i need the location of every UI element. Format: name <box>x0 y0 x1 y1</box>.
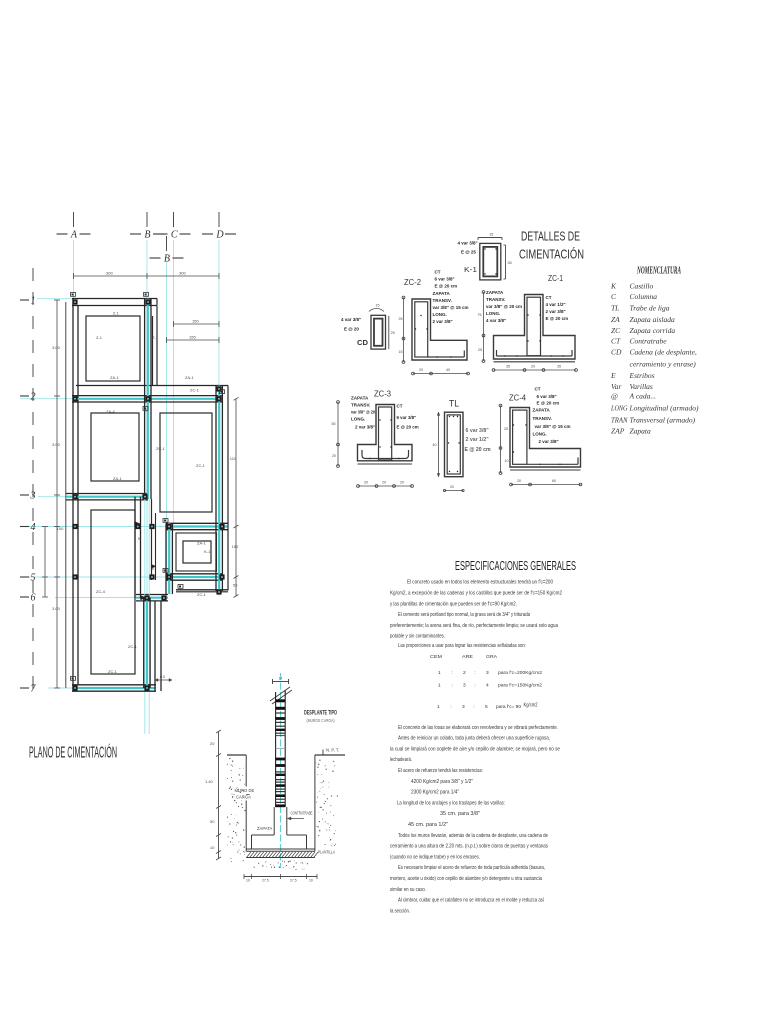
svg-text:Castillo: Castillo <box>630 282 654 291</box>
svg-text:B: B <box>144 229 150 240</box>
svg-text:10: 10 <box>505 459 509 463</box>
svg-text:20: 20 <box>210 741 215 746</box>
svg-text:var 3/8" @ 15 cm: var 3/8" @ 15 cm <box>535 424 571 429</box>
svg-text:2300 Kg/cm2 para 1/4": 2300 Kg/cm2 para 1/4" <box>411 790 459 796</box>
svg-text:1: 1 <box>437 704 440 710</box>
svg-text:Longitudinal (armado): Longitudinal (armado) <box>629 404 699 413</box>
svg-text:CT: CT <box>546 295 552 300</box>
svg-text:3.00: 3.00 <box>52 606 61 611</box>
svg-text::: : <box>450 705 451 710</box>
svg-text:Las proporciones a usar para l: Las proporciones a usar para lograr las … <box>398 643 526 649</box>
svg-text:La longitud de los anclajes y: La longitud de los anclajes y los trasla… <box>397 800 505 806</box>
svg-text:LONG.: LONG. <box>433 312 447 317</box>
svg-text:55: 55 <box>233 583 238 588</box>
svg-text:N. P. T.: N. P. T. <box>326 748 339 753</box>
svg-text:Zapata aislada: Zapata aislada <box>630 315 675 324</box>
svg-text:4: 4 <box>31 522 36 533</box>
svg-text:6 var 3/8": 6 var 3/8" <box>435 277 455 282</box>
svg-text:55: 55 <box>332 422 336 426</box>
svg-text:K: K <box>152 566 155 571</box>
svg-text:30: 30 <box>508 261 512 265</box>
svg-text:Todos los muros llevarán, adem: Todos los muros llevarán, además de la c… <box>398 833 548 839</box>
svg-text:20: 20 <box>364 481 368 485</box>
svg-text:El cemento será portland tipo: El cemento será portland tipo normal, la… <box>398 612 530 618</box>
svg-text:3: 3 <box>463 683 466 689</box>
svg-text:ZA: ZA <box>611 315 620 324</box>
svg-text:LONG.: LONG. <box>533 432 547 437</box>
svg-text::: : <box>474 671 475 676</box>
svg-text:E @ 25: E @ 25 <box>461 250 476 255</box>
svg-text:potable y sin contaminantes.: potable y sin contaminantes. <box>390 634 445 640</box>
svg-text:35: 35 <box>557 365 561 369</box>
svg-text:5: 5 <box>31 572 36 583</box>
svg-text:Es necesario limpiar el acero: Es necesario limpiar el acero de refuerz… <box>398 865 545 871</box>
svg-text:4 var 1/2": 4 var 1/2" <box>546 302 566 307</box>
svg-text:14: 14 <box>279 677 283 681</box>
svg-text:300: 300 <box>106 271 113 276</box>
svg-text:K: K <box>144 408 147 413</box>
svg-text:2 var 3/8": 2 var 3/8" <box>546 309 566 314</box>
svg-text:var 3/8" @ 20: var 3/8" @ 20 <box>351 410 375 415</box>
svg-text:10: 10 <box>309 879 313 883</box>
svg-text:3: 3 <box>30 490 36 501</box>
svg-text:ZAP: ZAP <box>611 427 625 436</box>
svg-text:ZAPATA: ZAPATA <box>351 396 369 401</box>
svg-text:CT: CT <box>435 270 441 275</box>
svg-text:Z-1: Z-1 <box>152 335 159 340</box>
svg-text:ZC-1: ZC-1 <box>108 669 118 674</box>
svg-text:2: 2 <box>463 670 466 676</box>
svg-text:E @ 20: E @ 20 <box>344 327 359 332</box>
svg-text:PLANTILLA: PLANTILLA <box>318 850 335 855</box>
svg-text::: : <box>474 684 475 689</box>
svg-text:45 cm. para 1/2": 45 cm. para 1/2" <box>408 822 448 828</box>
svg-text:CEM: CEM <box>430 654 442 660</box>
svg-text:25: 25 <box>504 427 508 431</box>
svg-text:ZA-1: ZA-1 <box>185 375 194 380</box>
svg-text:ZC-4: ZC-4 <box>96 589 106 594</box>
svg-text:100: 100 <box>57 526 64 531</box>
svg-text:preferentemente; la arena será: preferentemente; la arena será fina, de … <box>390 623 558 629</box>
svg-text:LONG.: LONG. <box>486 311 500 316</box>
svg-text:4 var 3/8": 4 var 3/8" <box>486 318 506 323</box>
svg-text:300: 300 <box>179 271 186 276</box>
svg-text:75: 75 <box>478 313 482 317</box>
svg-text:DESPLANTE TIPO: DESPLANTE TIPO <box>304 710 337 717</box>
svg-text::: : <box>452 684 453 689</box>
svg-text:E @ 20 cm: E @ 20 cm <box>397 425 419 430</box>
svg-text:20: 20 <box>517 479 521 483</box>
svg-text:var 3/8" @ 15 cm: var 3/8" @ 15 cm <box>433 305 469 310</box>
svg-text:PLANO DE CIMENTACIÓN: PLANO DE CIMENTACIÓN <box>29 745 117 762</box>
svg-text:40: 40 <box>433 443 437 447</box>
svg-text:MURO DE: MURO DE <box>235 788 255 793</box>
svg-text:El concreto de las losas se el: El concreto de las losas se elaborará co… <box>398 725 558 731</box>
svg-text:TL: TL <box>611 304 619 313</box>
svg-text:var 3/8" @ 20 cm: var 3/8" @ 20 cm <box>486 304 522 309</box>
svg-text:ZA-1: ZA-1 <box>113 476 122 481</box>
svg-text:K: K <box>610 282 617 291</box>
svg-text:10: 10 <box>246 879 250 883</box>
svg-text:la cual se limpiará con soplet: la cual se limpiará con soplete de aire … <box>390 746 560 752</box>
svg-text:4 var 3/8": 4 var 3/8" <box>458 241 478 246</box>
svg-text:Kg/cm2, a excepción de las cad: Kg/cm2, a excepción de las cadenas y los… <box>390 591 562 597</box>
svg-text:Estribos: Estribos <box>629 371 655 380</box>
svg-text:(MUROS CARGA): (MUROS CARGA) <box>307 718 335 723</box>
svg-text:4 var 3/8": 4 var 3/8" <box>341 317 361 322</box>
svg-text:lechadeará.: lechadeará. <box>390 757 412 763</box>
svg-text:LONG.: LONG. <box>351 417 365 422</box>
svg-text:ZC-2: ZC-2 <box>404 277 421 287</box>
svg-text:TRANSV.: TRANSV. <box>533 416 552 421</box>
svg-text:20: 20 <box>450 485 454 489</box>
svg-text:CT: CT <box>535 387 541 392</box>
svg-text:ZA-1: ZA-1 <box>197 541 206 546</box>
svg-text:E @ 20 cm: E @ 20 cm <box>537 400 560 405</box>
svg-text:El concreto usado en todos los: El concreto usado en todos los elemento … <box>407 580 553 586</box>
svg-text:20: 20 <box>419 368 423 372</box>
svg-text:E @ 20 cm: E @ 20 cm <box>435 284 458 289</box>
svg-text:25: 25 <box>399 317 403 321</box>
svg-text:ZC-1: ZC-1 <box>197 592 207 597</box>
svg-text:A: A <box>70 229 78 240</box>
svg-text:Al cimbrar, cuidar que el cala: Al cimbrar, cuidar que el calafateo no s… <box>398 898 545 904</box>
svg-text:ARE: ARE <box>462 654 473 660</box>
svg-text:1: 1 <box>438 670 441 676</box>
svg-text:CIMENTACIÓN: CIMENTACIÓN <box>519 247 584 262</box>
svg-text:TRANSV.: TRANSV. <box>433 298 452 303</box>
svg-text:ZC-3: ZC-3 <box>374 389 391 399</box>
svg-text:Transversal (armado): Transversal (armado) <box>630 416 696 425</box>
svg-text:6 var 3/8": 6 var 3/8" <box>466 428 490 434</box>
svg-text:Columna: Columna <box>630 292 658 301</box>
svg-text:para f'c= 90: para f'c= 90 <box>496 704 521 710</box>
svg-text:40: 40 <box>446 368 450 372</box>
svg-text:ZA-4: ZA-4 <box>106 409 115 414</box>
svg-text:cerramiento y enrase): cerramiento y enrase) <box>630 359 697 368</box>
svg-text:ZAPATA: ZAPATA <box>486 290 504 295</box>
svg-text:20: 20 <box>531 365 535 369</box>
svg-text:similar en su caso.: similar en su caso. <box>390 887 426 893</box>
svg-text:155: 155 <box>189 335 196 340</box>
svg-text:20: 20 <box>400 481 404 485</box>
svg-text:1.40: 1.40 <box>205 779 214 784</box>
svg-text:3.00: 3.00 <box>52 442 61 447</box>
svg-text:ESPECIFICACIONES GENERALES: ESPECIFICACIONES GENERALES <box>455 559 576 573</box>
svg-text:2 var 3/8": 2 var 3/8" <box>539 439 559 444</box>
svg-text:DETALLES DE: DETALLES DE <box>521 229 580 244</box>
svg-text:35 cm. para 3/8": 35 cm. para 3/8" <box>440 811 480 817</box>
svg-text:110: 110 <box>230 456 237 461</box>
svg-text:6: 6 <box>31 592 36 603</box>
svg-text:CT: CT <box>397 404 403 409</box>
svg-text:ZAPATA: ZAPATA <box>433 291 451 296</box>
svg-text:ZAPATA: ZAPATA <box>533 408 551 413</box>
svg-text:Zapata corrida: Zapata corrida <box>630 326 676 335</box>
svg-text:CONTRATRABE: CONTRATRABE <box>291 811 313 816</box>
svg-text:Kg/cm2: Kg/cm2 <box>524 703 538 709</box>
svg-text:ZC-1: ZC-1 <box>548 273 563 283</box>
svg-text:B: B <box>164 253 170 264</box>
svg-text:D: D <box>215 229 224 240</box>
svg-text:20: 20 <box>332 454 336 458</box>
svg-text:4: 4 <box>486 683 489 689</box>
svg-text::: : <box>452 671 453 676</box>
svg-text:2.1: 2.1 <box>113 311 119 316</box>
svg-text:K-1: K-1 <box>204 549 211 554</box>
svg-text:2 var 3/8": 2 var 3/8" <box>355 425 375 430</box>
svg-text:15: 15 <box>376 304 380 308</box>
svg-text:ZC-1: ZC-1 <box>190 388 200 393</box>
svg-text:mortero, aceite u óxido) con c: mortero, aceite u óxido) con cepillo de … <box>390 876 542 882</box>
svg-text:CT: CT <box>611 337 621 346</box>
svg-text:10: 10 <box>210 845 215 850</box>
svg-text:3.00: 3.00 <box>52 345 61 350</box>
svg-text:5: 5 <box>485 704 488 710</box>
svg-text:27.5: 27.5 <box>262 879 269 883</box>
svg-text:para f'c=150Kg/cm2: para f'c=150Kg/cm2 <box>498 683 542 689</box>
svg-text:K: K <box>138 536 141 541</box>
svg-text:Trabe de liga: Trabe de liga <box>630 304 670 313</box>
svg-text:Zapata: Zapata <box>630 427 652 436</box>
svg-text:20: 20 <box>382 481 386 485</box>
svg-text:Varillas: Varillas <box>630 382 653 391</box>
svg-text:2: 2 <box>31 391 36 402</box>
svg-text:TRANSV.: TRANSV. <box>351 403 370 408</box>
svg-text:2 var 1/2": 2 var 1/2" <box>466 437 490 443</box>
svg-text:K-1: K-1 <box>464 265 477 274</box>
svg-text:@: @ <box>611 392 618 401</box>
svg-text:150: 150 <box>232 544 239 549</box>
svg-text:ZC-1: ZC-1 <box>128 644 138 649</box>
svg-text:3: 3 <box>462 704 465 710</box>
svg-text:1: 1 <box>31 295 36 306</box>
svg-text:A cada...: A cada... <box>629 392 657 401</box>
svg-text:50: 50 <box>210 819 215 824</box>
svg-text:ZAPATA: ZAPATA <box>257 826 273 831</box>
svg-text:El acero de refuerzo tendrá la: El acero de refuerzo tendrá las resisten… <box>398 768 483 774</box>
svg-text:para f'c=200Kg/cm2: para f'c=200Kg/cm2 <box>498 670 542 676</box>
svg-text:3: 3 <box>486 670 489 676</box>
svg-text:Contratrabe: Contratrabe <box>630 337 668 346</box>
svg-text:cerramiento a una altura de 2.: cerramiento a una altura de 2.20 mts. (n… <box>390 844 548 850</box>
svg-text:GRA: GRA <box>486 654 498 660</box>
svg-text:Z-1: Z-1 <box>96 335 103 340</box>
svg-text:150: 150 <box>192 319 199 324</box>
svg-text:Antes de reiniciar un colado,: Antes de reiniciar un colado, toda junta… <box>398 736 550 742</box>
svg-text:2 var 3/8": 2 var 3/8" <box>433 319 453 324</box>
svg-text:E @ 20 cm: E @ 20 cm <box>465 447 491 453</box>
svg-text:C: C <box>171 229 178 240</box>
svg-text:E: E <box>610 371 616 380</box>
svg-text:ZC-4: ZC-4 <box>509 393 526 403</box>
svg-text:CD: CD <box>357 338 369 347</box>
svg-text:LONG: LONG <box>610 404 628 413</box>
svg-text:CD: CD <box>611 348 622 357</box>
svg-text:ZA-1: ZA-1 <box>110 375 119 380</box>
svg-text:6 var 3/8": 6 var 3/8" <box>537 394 557 399</box>
svg-text:25: 25 <box>478 348 482 352</box>
svg-text:4200 Kg/cm2 para 3/8" y 1/2: 4200 Kg/cm2 para 3/8" y 1/2" <box>411 779 473 785</box>
svg-text:y las plantillas de cimentació: y las plantillas de cimentación que pued… <box>390 601 517 607</box>
svg-text:15: 15 <box>399 350 403 354</box>
svg-text:NOMENCLATURA: NOMENCLATURA <box>637 265 681 277</box>
svg-text:TL: TL <box>449 399 459 409</box>
svg-text:Cadena (de desplante,: Cadena (de desplante, <box>630 348 697 357</box>
svg-text:1: 1 <box>438 683 441 689</box>
svg-text:Var: Var <box>611 382 622 391</box>
svg-text::: : <box>473 705 474 710</box>
svg-text:20: 20 <box>391 331 395 335</box>
svg-text:27.5: 27.5 <box>290 879 297 883</box>
svg-text:ZC: ZC <box>611 326 621 335</box>
svg-text:(cuando no se indique trabe): (cuando no se indique trabe) y en los en… <box>390 854 480 860</box>
svg-text:TRAN: TRAN <box>611 416 628 425</box>
svg-text:35: 35 <box>506 365 510 369</box>
svg-text:15: 15 <box>489 233 493 237</box>
svg-text:0.5: 0.5 <box>160 675 165 679</box>
svg-text:E @ 20 cm: E @ 20 cm <box>546 316 569 321</box>
svg-text:TRANSV.: TRANSV. <box>486 297 505 302</box>
svg-text:ZC-1: ZC-1 <box>196 463 206 468</box>
svg-text:60: 60 <box>552 479 556 483</box>
svg-text:ZC-1: ZC-1 <box>156 446 166 451</box>
svg-text:6 var 3/8": 6 var 3/8" <box>397 415 417 420</box>
svg-text:la sección.: la sección. <box>390 908 410 914</box>
